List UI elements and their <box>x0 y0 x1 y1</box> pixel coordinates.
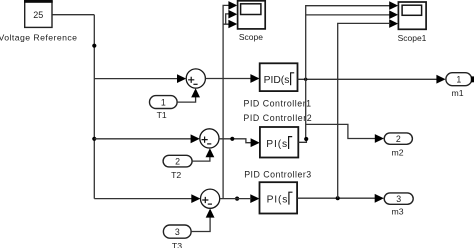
svg-text:m3: m3 <box>392 206 404 216</box>
svg-text:2: 2 <box>175 157 180 167</box>
wire row1 to sum1 <box>94 78 177 80</box>
wire T1 to sum1 <box>177 97 196 102</box>
arrowhead Scope in3 <box>228 20 237 29</box>
svg-text:25: 25 <box>33 10 43 20</box>
arrowhead into sum3 <box>191 194 200 203</box>
outport m1 <box>446 73 472 86</box>
wire scope riser (sum3 to Scope in1) <box>223 5 229 198</box>
wire sum1 output to PID1 <box>205 78 251 80</box>
arrowhead into PID1 <box>250 74 259 83</box>
PI block U2 <box>260 127 298 158</box>
svg-text:Voltage Reference: Voltage Reference <box>0 32 77 42</box>
arrowhead up into sum2 <box>206 148 215 157</box>
sum block S1 <box>186 69 205 88</box>
arrowhead Scope1 in3 <box>389 19 398 28</box>
arrowhead Scope in2 <box>228 10 237 19</box>
svg-text:3: 3 <box>175 227 180 237</box>
svg-text:T1: T1 <box>157 110 167 120</box>
junction dot PI3/riser3 <box>336 196 340 200</box>
inport T3 <box>163 225 191 238</box>
junction dot row2 <box>230 137 234 141</box>
wire PI3 output to m3 <box>297 197 376 199</box>
svg-text:T2: T2 <box>171 170 181 180</box>
wire Scope1 in2 branch <box>306 14 391 16</box>
arrowhead Scope in1 <box>228 1 237 10</box>
scope block Scope <box>238 1 266 29</box>
inport T1 <box>150 96 178 109</box>
arrowhead Scope1 in2 <box>389 10 398 19</box>
svg-text:PID Controller2: PID Controller2 <box>243 113 311 123</box>
svg-text:Scope1: Scope1 <box>398 33 427 43</box>
wire scope stub (in2-in3 connector) <box>223 14 229 24</box>
wire T2 to sum2 <box>192 157 210 162</box>
svg-text:T3: T3 <box>172 241 182 248</box>
junction dot row3 <box>235 197 239 201</box>
wire: VR output to trunk corner <box>52 14 94 16</box>
wire riser3 (PI3 branch up to Scope1 in3) <box>338 23 391 198</box>
svg-text:PI(s: PI(s <box>266 139 287 150</box>
outport m2 <box>384 133 412 144</box>
arrowhead Scope1 in1 <box>389 1 398 10</box>
arrowhead into m2 <box>375 134 384 143</box>
svg-text:PID Controller1: PID Controller1 <box>244 99 312 109</box>
svg-text:m2: m2 <box>392 148 404 158</box>
arrowhead into PI2 <box>251 138 260 147</box>
arrowhead into m1 <box>436 75 445 84</box>
inport T2 <box>163 155 192 167</box>
junction dot trunk row2 <box>92 137 96 141</box>
svg-text:1: 1 <box>456 75 461 85</box>
wire row3 to sum3 <box>94 198 192 200</box>
wire riser2 (PID2 branch up to Scope1) <box>306 6 391 139</box>
junction dot PID1/riser2 <box>304 78 307 81</box>
wire sum2 output jog to PI2 <box>219 139 252 143</box>
svg-text:PID Controller3: PID Controller3 <box>244 170 311 180</box>
sum block S3 <box>201 189 220 208</box>
svg-text:2: 2 <box>396 134 401 144</box>
wire T3 to sum3 <box>191 217 210 232</box>
outport m3 <box>384 193 413 204</box>
constant block VR "25" (Voltage Reference) <box>24 0 53 27</box>
arrowhead up into sum3 <box>206 209 215 218</box>
wire PID1 output to m1 <box>298 78 438 80</box>
sum block S2 <box>200 129 219 148</box>
junction dot on trunk <box>92 44 96 48</box>
scope block Scope1 <box>398 2 426 29</box>
arrowhead into PI3 <box>250 194 259 203</box>
svg-text:m1: m1 <box>452 88 464 98</box>
wire: left trunk vertical <box>93 15 95 199</box>
arrowhead up into sum1 <box>191 88 200 97</box>
clipped wire stub right edge <box>471 76 474 82</box>
svg-text:1: 1 <box>161 97 166 107</box>
svg-text:PID(s: PID(s <box>264 75 290 86</box>
wire sum3 output to PI3 <box>220 198 252 200</box>
PI block U3 <box>260 182 298 213</box>
wire row2 to sum2 <box>94 138 191 140</box>
svg-text:Scope: Scope <box>239 32 263 42</box>
arrowhead into sum1 <box>177 74 186 83</box>
arrowhead into m3 <box>375 194 384 203</box>
PID block U1 <box>260 63 298 91</box>
junction dot PI2 output <box>304 137 308 141</box>
svg-text:PI(s: PI(s <box>267 195 288 206</box>
arrowhead into sum2 <box>191 134 200 143</box>
wire m2 branch <box>306 124 376 138</box>
wire PI2 output jog up <box>298 139 306 142</box>
svg-text:3: 3 <box>396 194 401 204</box>
